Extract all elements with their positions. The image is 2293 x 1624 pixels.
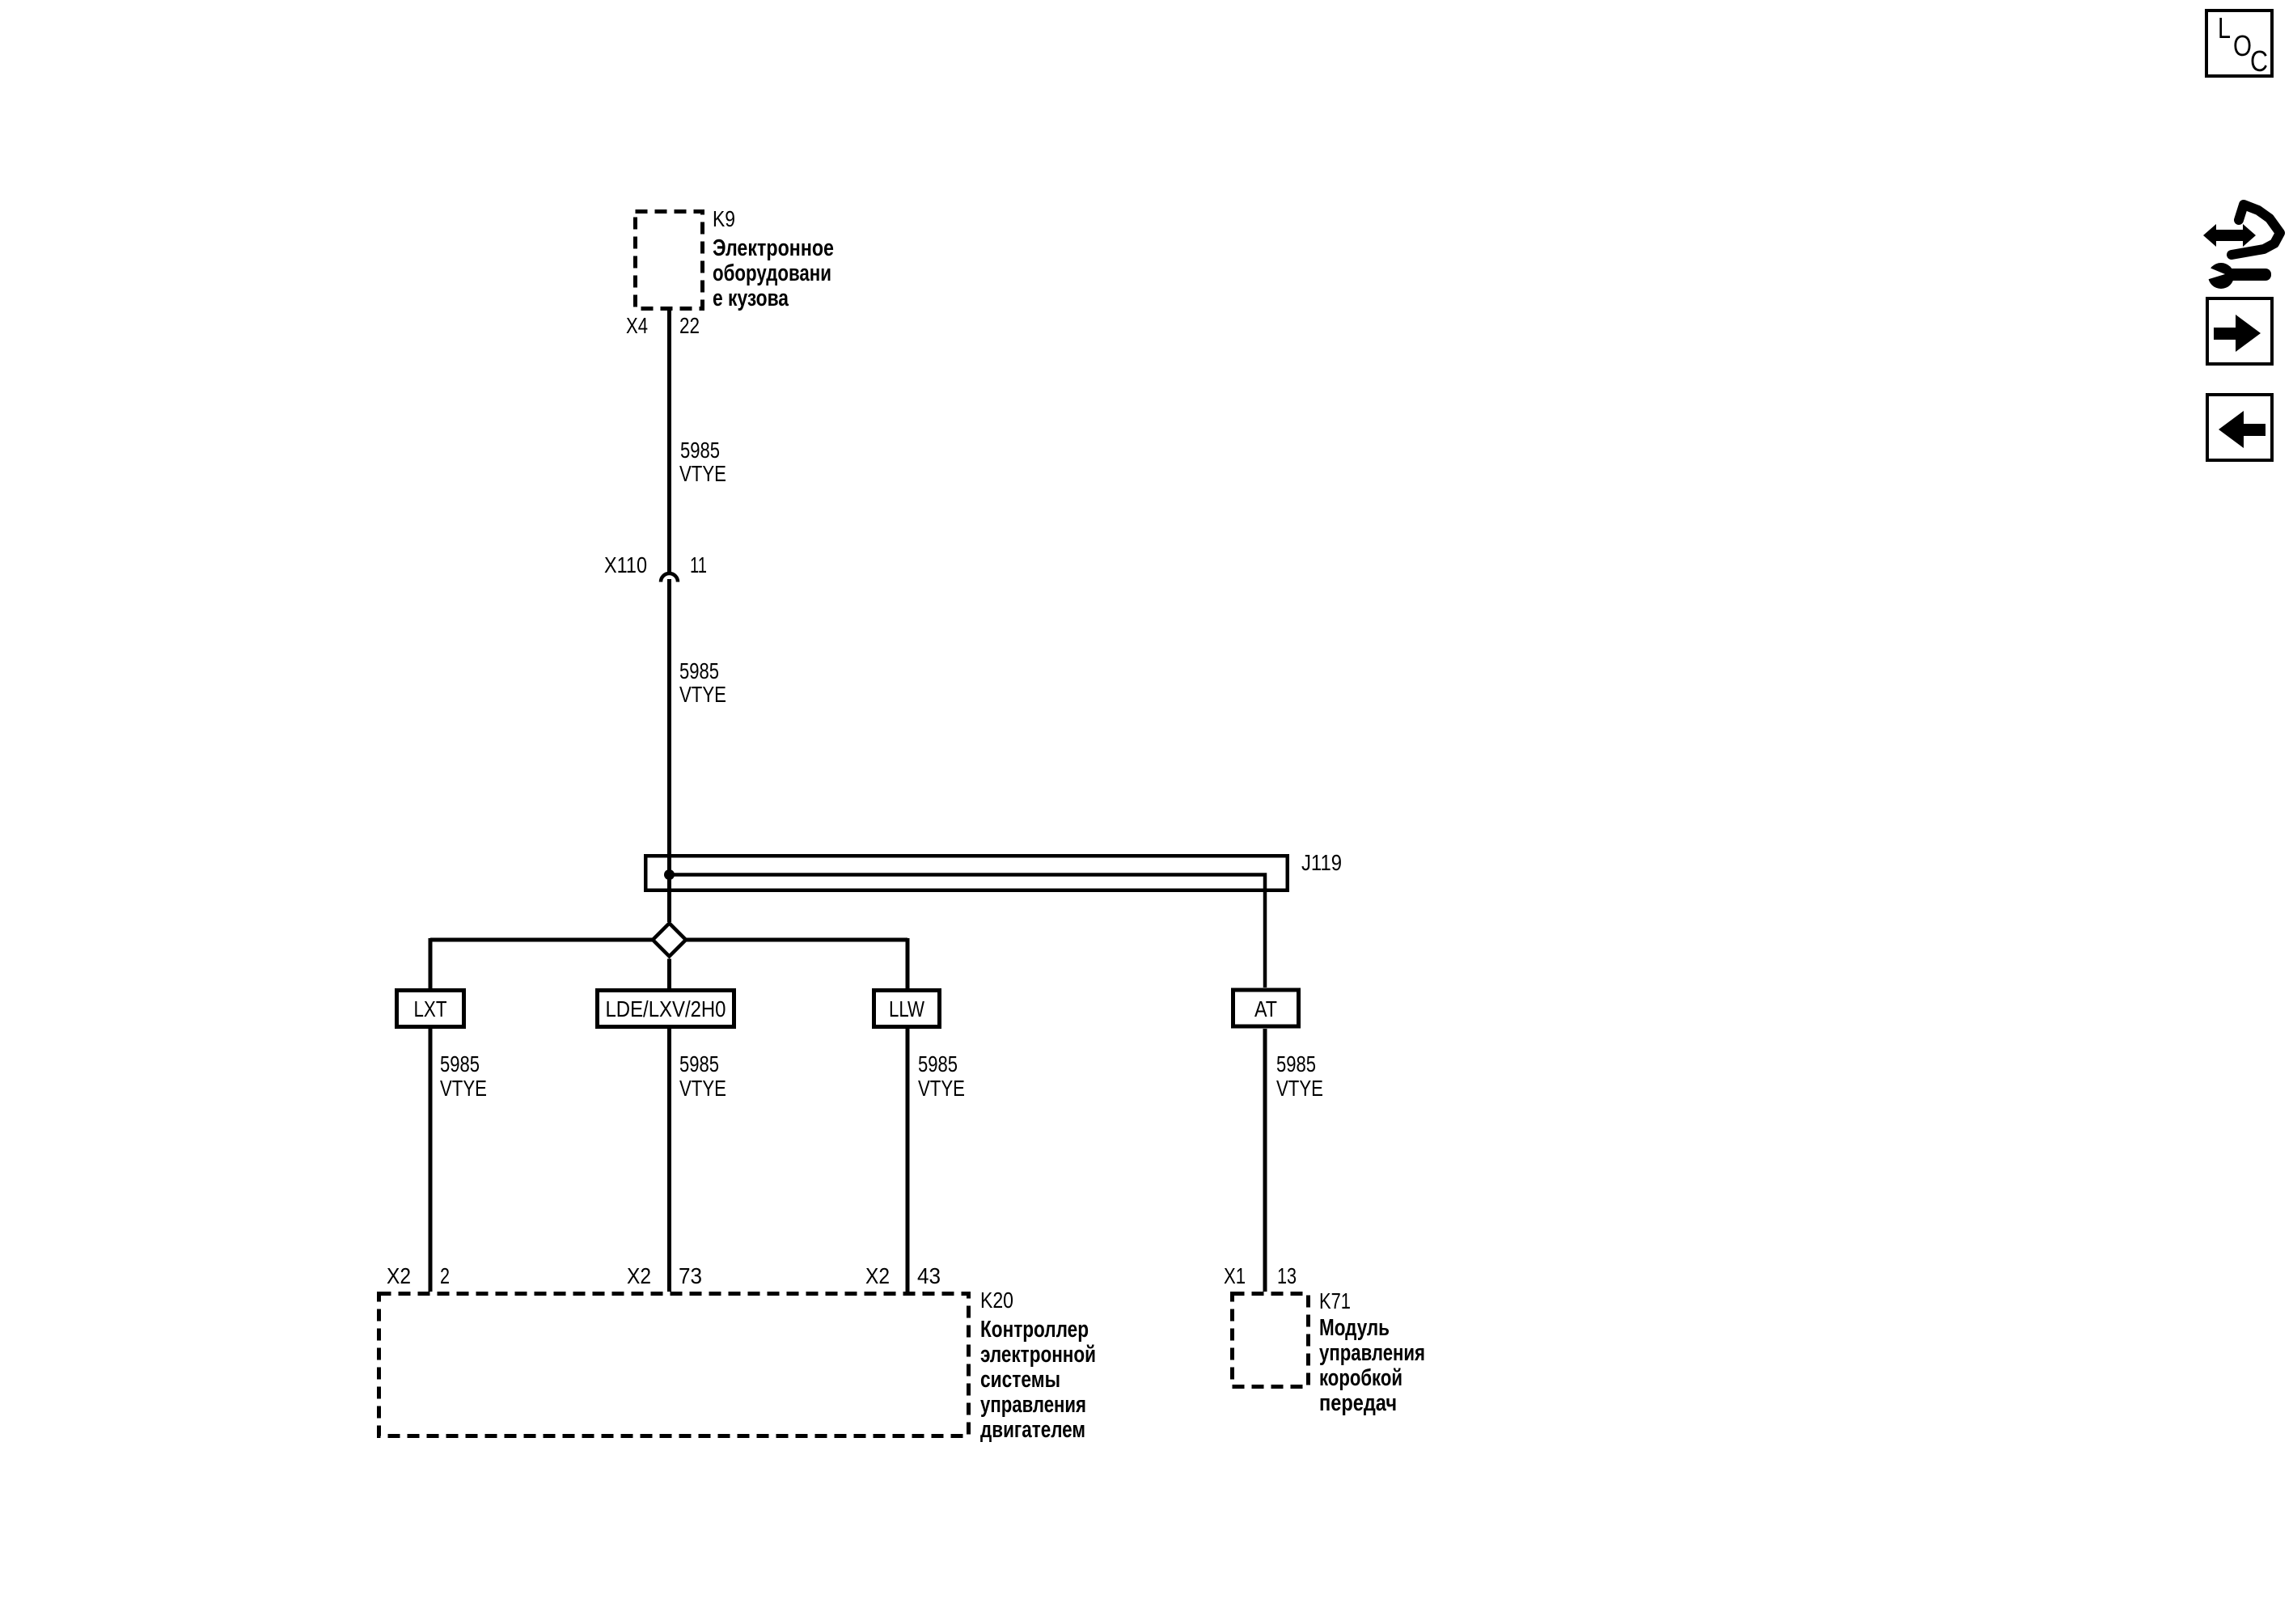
wire down to LLW box: [906, 938, 910, 988]
wrench handle: [2226, 269, 2271, 281]
svg-text:C: C: [2250, 44, 2268, 78]
svg-text:J119: J119: [1301, 850, 1342, 875]
svg-text:K9: K9: [713, 206, 735, 231]
svg-text:22: 22: [679, 313, 700, 338]
svg-text:VTYE: VTYE: [679, 682, 726, 707]
K20 description: [980, 1317, 1096, 1443]
wire horizontal distribution to LXT and LLW: [430, 938, 907, 942]
svg-text:L: L: [2218, 11, 2231, 44]
junction dot on J119 bus: [664, 869, 675, 880]
option box AT: [1233, 990, 1299, 1026]
K71 description: [1319, 1315, 1425, 1416]
wire label 5985 VTYE (upper): [679, 438, 726, 486]
splice pack J119 (outer rectangle): [645, 856, 1288, 890]
wrench head: [2208, 263, 2234, 289]
splice diamond: [653, 924, 686, 957]
wire label 5985 VTYE (middle): [679, 658, 726, 707]
svg-text:VTYE: VTYE: [679, 1076, 726, 1101]
K9 description: Электронное оборудовани е кузова: [713, 235, 834, 311]
wire LDE to K20 pin 73: [667, 1029, 671, 1292]
right arrow: [2214, 315, 2261, 352]
svg-text:VTYE: VTYE: [440, 1076, 487, 1101]
component K71 (dashed box): [1233, 1294, 1309, 1387]
svg-text:5985: 5985: [679, 658, 719, 683]
wire label 5985 VTYE (LLW): [918, 1051, 965, 1101]
svg-text:X2: X2: [865, 1263, 890, 1288]
svg-text:передач: передач: [1319, 1390, 1397, 1416]
svg-text:Модуль: Модуль: [1319, 1315, 1390, 1341]
svg-text:11: 11: [690, 552, 707, 577]
option box LLW: [874, 991, 940, 1027]
svg-text:системы: системы: [980, 1367, 1060, 1393]
chevron arrow body: [2232, 205, 2280, 255]
svg-text:43: 43: [917, 1263, 941, 1288]
svg-text:управления: управления: [980, 1392, 1086, 1418]
left arrow: [2219, 411, 2266, 448]
svg-text:X1: X1: [1224, 1263, 1246, 1288]
component K9 (dashed box): [636, 212, 703, 309]
svg-text:управления: управления: [1319, 1340, 1425, 1366]
svg-text:двигателем: двигателем: [980, 1417, 1085, 1443]
wire down to LXT box: [429, 938, 433, 988]
wire LLW to K20 pin 43: [906, 1029, 910, 1292]
svg-text:коробкой: коробкой: [1319, 1365, 1402, 1391]
double headed arrow: [2203, 224, 2256, 247]
svg-text:73: 73: [679, 1263, 702, 1288]
svg-text:VTYE: VTYE: [1276, 1076, 1323, 1101]
svg-text:электронной: электронной: [980, 1342, 1096, 1368]
wire K9 pin 22 to X110: [667, 311, 671, 573]
svg-text:Электронное: Электронное: [713, 235, 834, 261]
wire label 5985 VTYE (LXT): [440, 1051, 487, 1101]
svg-text:X110: X110: [604, 552, 647, 577]
wire X110 to splice J119 / diamond: [667, 579, 671, 922]
svg-text:X4: X4: [626, 313, 648, 338]
wire J119 internal bus to AT branch: [670, 875, 1266, 988]
wire AT to K71 pin 13: [1263, 1029, 1267, 1292]
navigation arrow box (right): [2207, 298, 2272, 364]
LOC letters: [2218, 11, 2268, 78]
data communication icon: [2203, 205, 2280, 289]
wire diamond to LDE box: [667, 959, 671, 989]
svg-text:5985: 5985: [680, 438, 720, 463]
svg-text:5985: 5985: [679, 1051, 719, 1076]
svg-text:5985: 5985: [440, 1051, 480, 1076]
svg-text:е кузова: е кузова: [713, 285, 789, 311]
svg-text:5985: 5985: [1276, 1051, 1316, 1076]
svg-text:O: O: [2233, 29, 2252, 62]
svg-text:K71: K71: [1319, 1288, 1351, 1313]
svg-text:LLW: LLW: [889, 996, 924, 1021]
navigation arrow box (left): [2207, 395, 2272, 460]
connector X110 pin 11 (inline arc): [661, 573, 678, 582]
wire label 5985 VTYE (AT): [1276, 1051, 1323, 1101]
svg-text:VTYE: VTYE: [679, 461, 726, 486]
svg-text:K20: K20: [980, 1288, 1013, 1313]
LOC legend box: [2206, 11, 2272, 76]
svg-text:X2: X2: [627, 1263, 651, 1288]
svg-text:Контроллер: Контроллер: [980, 1317, 1089, 1343]
wire LXT to K20 pin 2: [429, 1029, 433, 1292]
wrench jaw notch: [2206, 266, 2225, 280]
svg-text:VTYE: VTYE: [918, 1076, 965, 1101]
svg-text:AT: AT: [1254, 996, 1277, 1021]
option box LDE/LXV/2H0: [598, 991, 734, 1027]
svg-text:LDE/LXV/2H0: LDE/LXV/2H0: [606, 996, 726, 1021]
svg-text:13: 13: [1277, 1263, 1297, 1288]
component K20 (dashed box): [379, 1294, 969, 1436]
svg-text:LXT: LXT: [414, 996, 447, 1021]
svg-text:5985: 5985: [918, 1051, 958, 1076]
wire label 5985 VTYE (LDE): [679, 1051, 726, 1101]
svg-text:X2: X2: [387, 1263, 411, 1288]
svg-text:оборудовани: оборудовани: [713, 260, 831, 286]
svg-text:2: 2: [440, 1263, 450, 1288]
option box LXT: [397, 991, 464, 1027]
